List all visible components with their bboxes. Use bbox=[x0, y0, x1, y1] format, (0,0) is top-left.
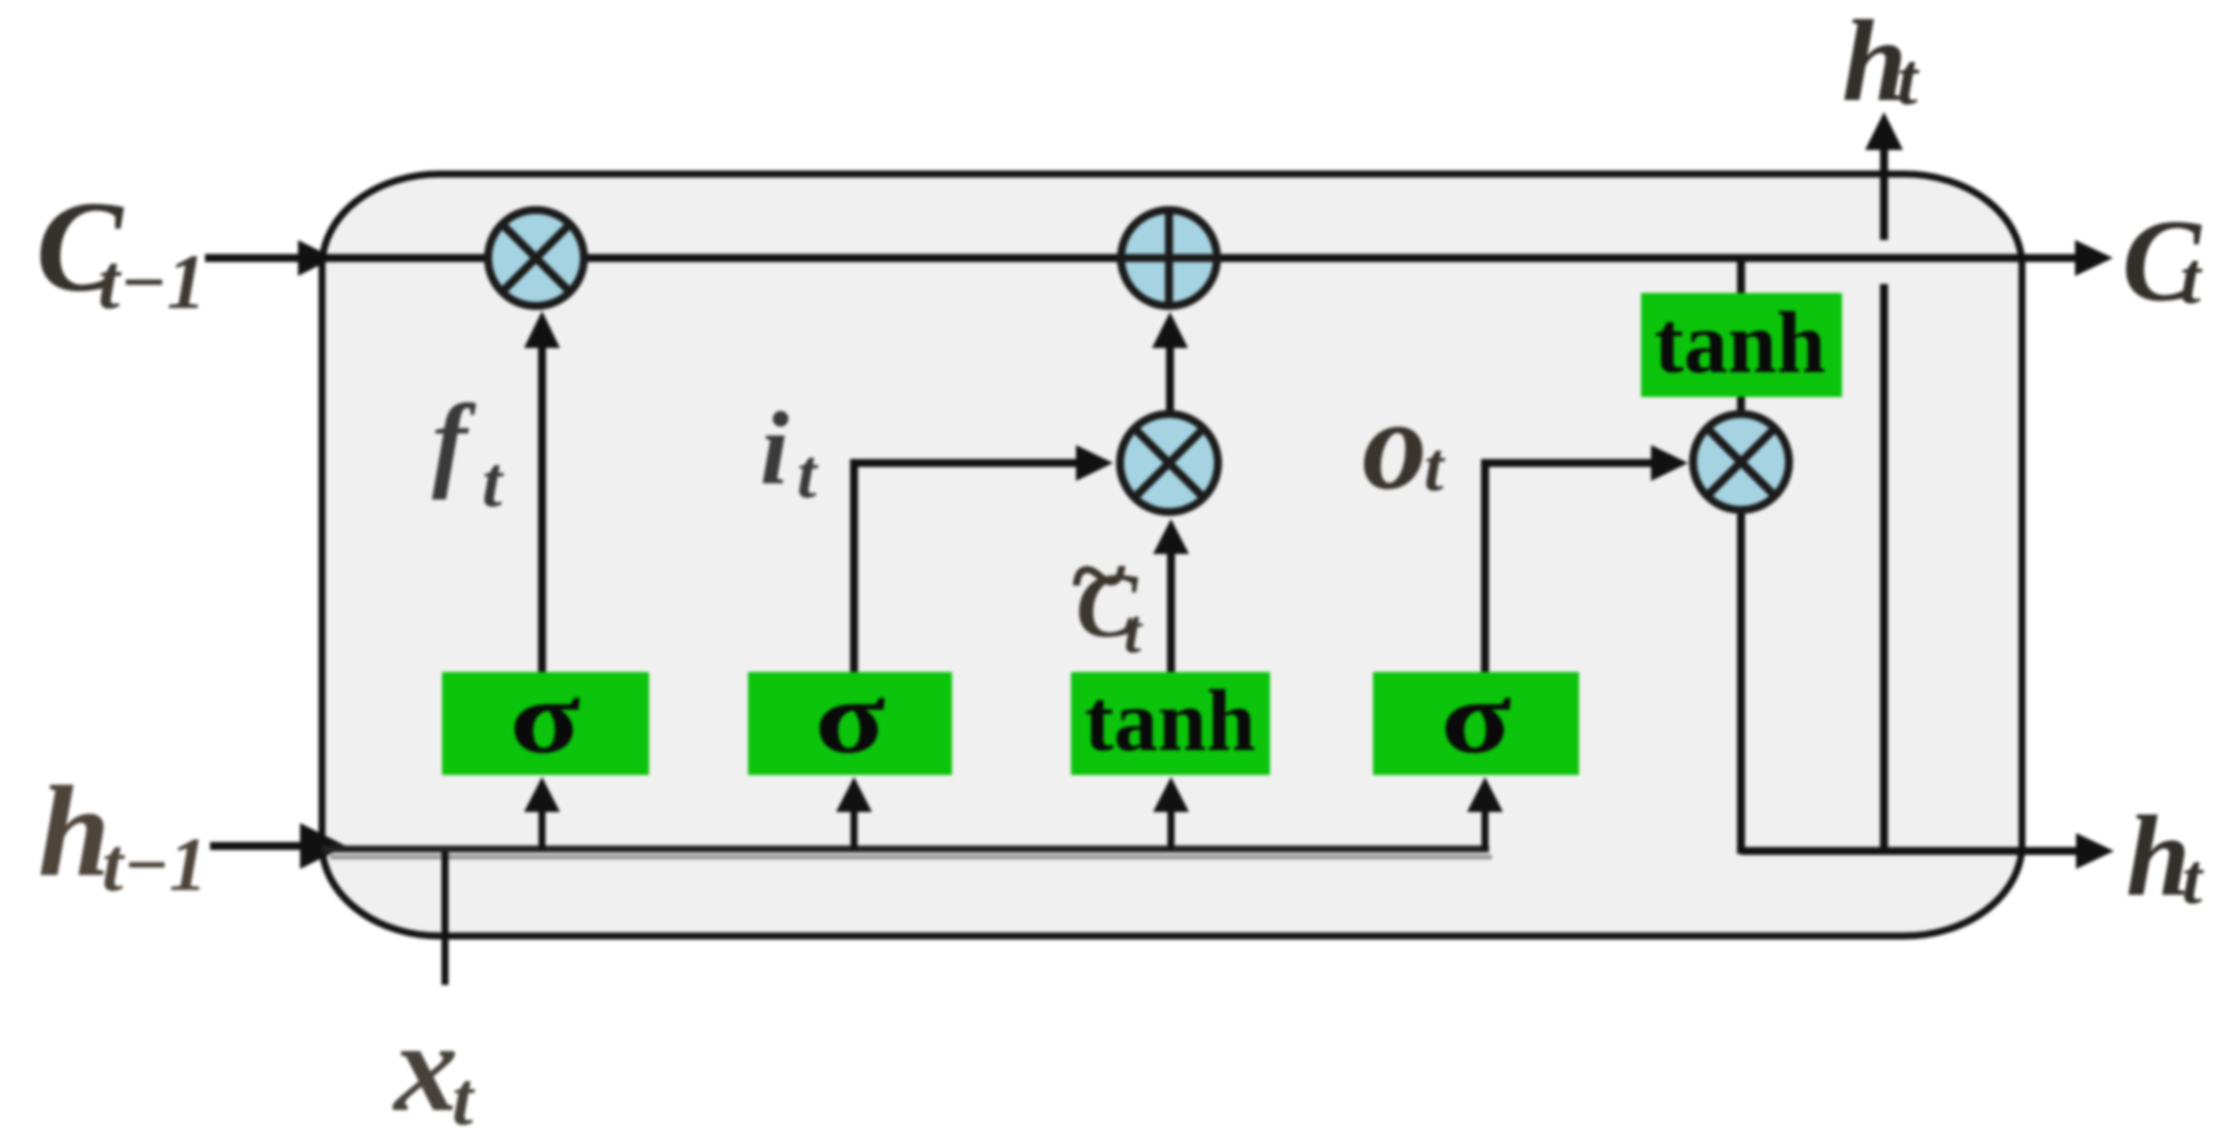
svg-text:σ: σ bbox=[815, 660, 886, 775]
wire C path left segment bbox=[322, 254, 486, 262]
wire xt input bbox=[442, 852, 449, 985]
svg-text:h: h bbox=[2126, 793, 2191, 921]
svg-text:σ: σ bbox=[510, 660, 581, 775]
wire h output horizontal bbox=[1741, 847, 2078, 855]
svg-text:t−1: t−1 bbox=[102, 823, 207, 907]
LSTM cell body bbox=[322, 174, 2022, 936]
wire h path shadow bbox=[330, 855, 1492, 860]
sigma gate 1 box bbox=[442, 672, 649, 775]
svg-text:t−1: t−1 bbox=[98, 238, 206, 325]
multiply node 2 bbox=[1120, 414, 1218, 512]
multiply node 1 bbox=[488, 210, 584, 306]
arrowhead into cell for Ct-1 bbox=[298, 240, 334, 276]
wire ft from sigma gate 1 to multiply node 1 bbox=[538, 346, 546, 672]
wire h path inside cell bbox=[322, 846, 1489, 853]
wire stub into tanh gate 3 bbox=[1168, 808, 1175, 849]
svg-text:~: ~ bbox=[1072, 518, 1126, 633]
svg-text:t: t bbox=[2180, 238, 2203, 320]
svg-text:t: t bbox=[452, 1057, 476, 1132]
wire stub into sigma gate 2 bbox=[851, 808, 858, 849]
svg-text:t: t bbox=[1897, 39, 1920, 121]
tanh box 5 bbox=[1641, 293, 1842, 397]
svg-text:tanh: tanh bbox=[1654, 295, 1825, 392]
svg-text:t: t bbox=[1124, 598, 1143, 666]
wire Ct-1 lead-in bbox=[205, 254, 300, 262]
wire ht-1 lead-in bbox=[210, 842, 305, 850]
svg-text:t: t bbox=[482, 442, 504, 522]
svg-text:t: t bbox=[1424, 429, 1446, 506]
svg-text:t: t bbox=[797, 436, 819, 513]
arrowhead Ct output bbox=[2075, 240, 2113, 276]
wire stub into sigma gate 1 bbox=[539, 808, 546, 849]
tanh gate 3 box bbox=[1071, 672, 1270, 775]
add node bbox=[1121, 210, 1217, 306]
wire stub into sigma gate 4 bbox=[1482, 808, 1489, 849]
wire tanh box 5 to multiply node 3 bbox=[1737, 395, 1745, 414]
sigma gate 4 box bbox=[1373, 672, 1579, 775]
wire branch C to tanh box 5 bbox=[1737, 258, 1745, 295]
arrowhead into cell for ht-1 bbox=[300, 823, 346, 869]
svg-text:tanh: tanh bbox=[1084, 673, 1255, 770]
wire ht top output upper part bbox=[1880, 148, 1888, 240]
svg-text:σ: σ bbox=[1441, 660, 1512, 775]
wire Ctilde from tanh gate 3 to multiply node 2 bbox=[1167, 552, 1175, 672]
arrowhead ht top output bbox=[1865, 112, 1903, 150]
svg-text:i: i bbox=[760, 391, 789, 506]
sigma gate 2 box bbox=[748, 672, 952, 775]
multiply node 3 bbox=[1693, 414, 1789, 510]
arrowhead ht right output bbox=[2076, 833, 2114, 869]
svg-text:t: t bbox=[2182, 839, 2204, 919]
wire it from sigma gate 2 to multiply node 2 bbox=[854, 463, 1078, 672]
wire C path middle segment bbox=[586, 254, 2078, 262]
wire multiply node 3 down to h output bbox=[1737, 512, 1745, 854]
wire ht top output lower part bbox=[1880, 284, 1888, 851]
svg-text:h: h bbox=[38, 760, 110, 904]
wire ot from sigma gate 4 to multiply node 3 bbox=[1485, 463, 1652, 672]
svg-text:x: x bbox=[392, 996, 458, 1132]
wire multiply node 2 to add node bbox=[1166, 348, 1174, 414]
svg-text:o: o bbox=[1362, 373, 1427, 517]
